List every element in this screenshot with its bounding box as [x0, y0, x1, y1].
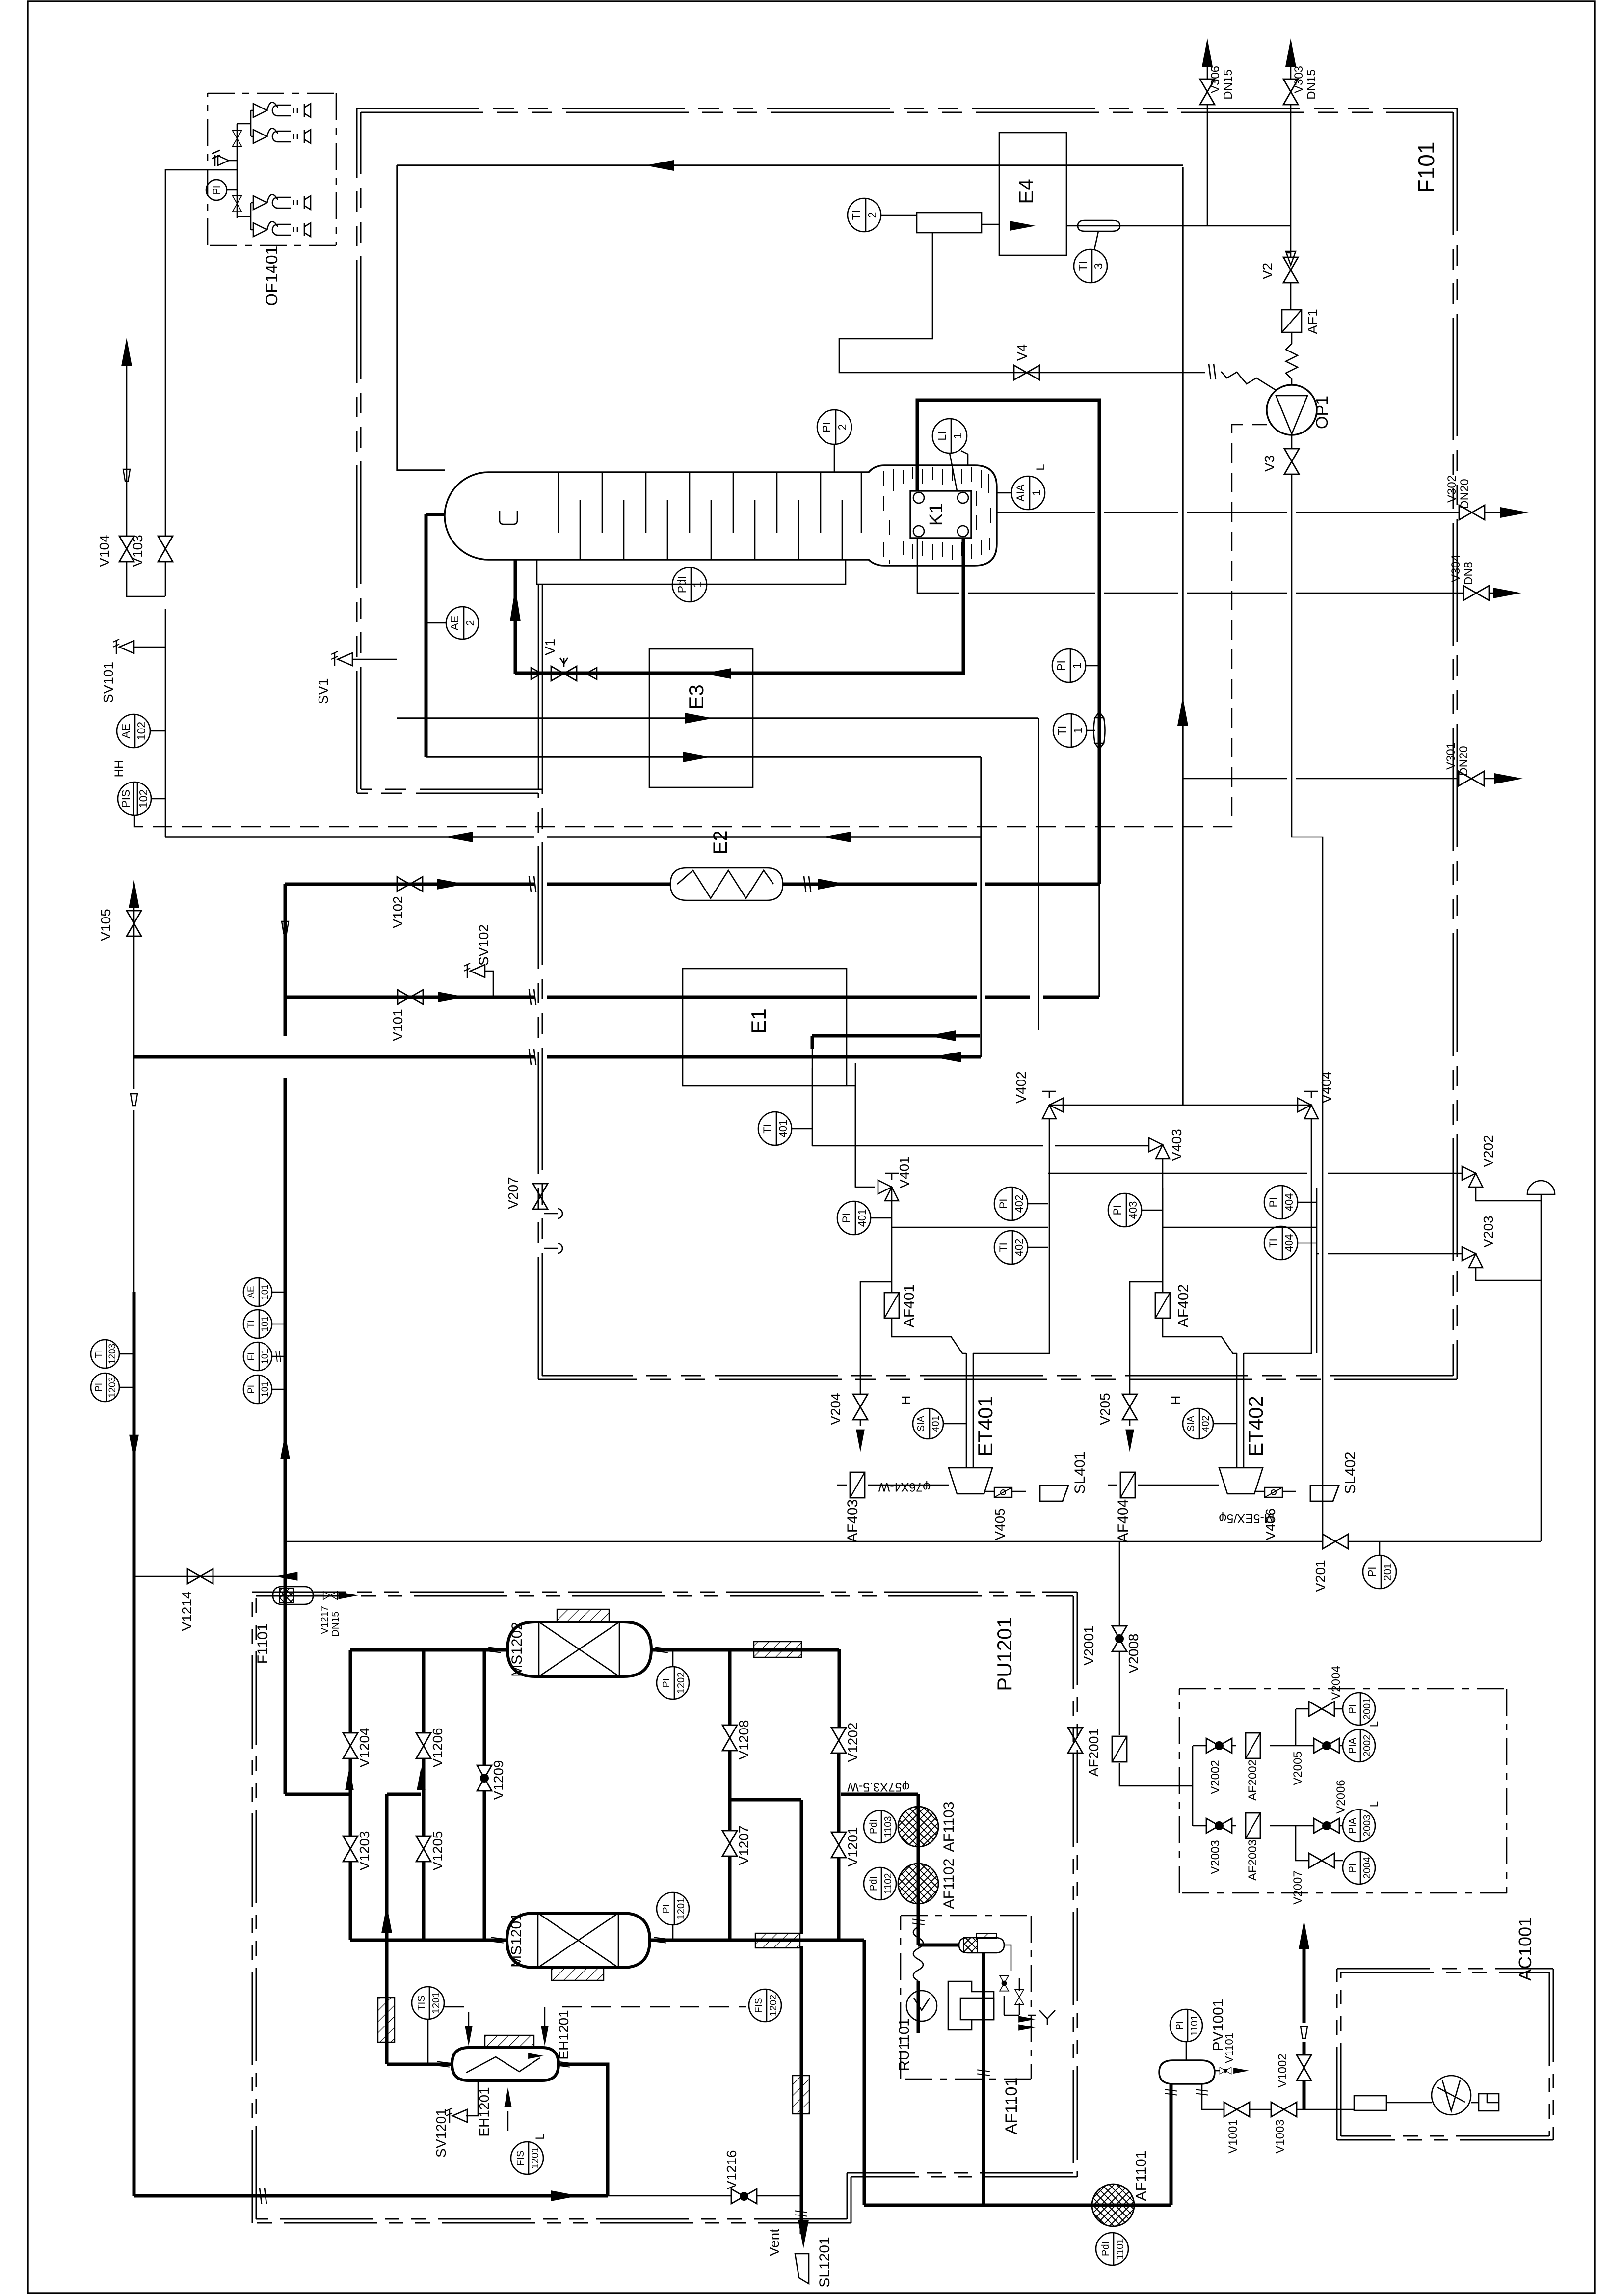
K1 column drum	[445, 465, 997, 566]
svg-text:AF401: AF401	[901, 1284, 917, 1327]
vent valve V303	[1290, 44, 1292, 226]
valve V1202	[831, 1728, 846, 1753]
PdI1 differential loop under K1	[537, 560, 846, 584]
svg-text:SV101: SV101	[101, 662, 116, 703]
svg-text:V1207: V1207	[736, 1826, 751, 1865]
svg-text:102: 102	[137, 789, 150, 808]
svg-text:V2006: V2006	[1334, 1780, 1348, 1813]
OP1 discharge with V3	[1291, 435, 1323, 1541]
valve V1 with flanges	[531, 668, 597, 679]
svg-text:PI: PI	[1055, 660, 1067, 671]
svg-text:402: 402	[1013, 1239, 1025, 1257]
ET401 downcomer piping	[892, 1119, 1049, 1468]
ET402 pot	[1219, 1468, 1263, 1494]
outlet line V1001 V1003	[1202, 2084, 1354, 2109]
main filter AF1101	[864, 2204, 1171, 2207]
line from OF1401 to V103 column	[165, 170, 186, 536]
drum drain double line	[538, 584, 542, 789]
svg-text:1201: 1201	[530, 2147, 541, 2169]
svg-text:TI: TI	[997, 1243, 1010, 1252]
svg-text:V2008: V2008	[1126, 1634, 1141, 1674]
svg-text:DN15: DN15	[1222, 69, 1235, 99]
svg-text:OP1: OP1	[1313, 396, 1331, 429]
svg-text:AF403: AF403	[845, 1499, 861, 1542]
svg-text:2: 2	[836, 424, 849, 431]
svg-text:1: 1	[1070, 663, 1083, 669]
svg-text:OF1401: OF1401	[263, 246, 281, 306]
blowdown filter AF403	[837, 1485, 949, 1486]
ET401 pot	[949, 1468, 992, 1494]
svg-text:LI: LI	[935, 431, 948, 440]
gauge PI402	[994, 1187, 1028, 1220]
svg-text:φ57X3.5-W: φ57X3.5-W	[847, 1780, 910, 1794]
svg-text:PIA: PIA	[1347, 1817, 1358, 1834]
relief valve SV1	[331, 651, 352, 666]
svg-text:AF1103: AF1103	[941, 1802, 957, 1852]
svg-text:403: 403	[1127, 1201, 1139, 1219]
valve V2	[1283, 257, 1298, 283]
K1 bottoms nozzle line	[426, 514, 445, 757]
svg-text:PI: PI	[1347, 1704, 1358, 1714]
angle valve V403	[1149, 1138, 1170, 1159]
valve V1003	[1271, 2102, 1297, 2117]
svg-text:FIS: FIS	[515, 2150, 526, 2165]
valve V2006	[1314, 1818, 1339, 1833]
svg-text:AF2002: AF2002	[1246, 1759, 1259, 1801]
svg-text:SV102: SV102	[476, 924, 491, 966]
gauge PI201	[1363, 1555, 1396, 1589]
PU1201 package boundary (phantom double line)	[252, 1592, 1077, 1593]
svg-text:L: L	[1368, 1801, 1380, 1807]
svg-text:V2001: V2001	[1081, 1626, 1096, 1666]
svg-text:V102: V102	[390, 896, 405, 928]
filter AF401	[884, 1293, 899, 1318]
filter AF402	[1155, 1293, 1170, 1318]
svg-text:PdI: PdI	[1100, 2242, 1111, 2256]
svg-text:1201: 1201	[676, 1898, 687, 1920]
analyzer AE2	[446, 607, 479, 639]
MS1202 feed line	[350, 1649, 839, 1728]
manifold riser	[284, 884, 287, 1794]
svg-text:AF1102: AF1102	[941, 1859, 957, 1909]
gauge PI403	[1108, 1193, 1142, 1227]
svg-text:PI: PI	[661, 1678, 672, 1688]
svg-text:V202: V202	[1481, 1135, 1496, 1167]
E3 heat exchanger box	[649, 649, 753, 787]
drain V205	[1130, 1282, 1163, 1426]
filter AF2003	[1246, 1813, 1260, 1838]
svg-text:201: 201	[1382, 1563, 1394, 1581]
heater element dashed with FIS1201	[507, 2111, 508, 2140]
MS1201 feed line	[350, 1940, 864, 2205]
check valve V406 and sight flag SL402	[1254, 1491, 1296, 1492]
svg-text:AF402: AF402	[1175, 1284, 1192, 1327]
svg-text:PI: PI	[840, 1213, 852, 1223]
gauge TI1 with flow element	[1053, 714, 1087, 747]
svg-text:V401: V401	[897, 1156, 912, 1188]
valve V2002	[1206, 1738, 1232, 1753]
svg-text:H: H	[1169, 1396, 1183, 1405]
svg-text:E3: E3	[685, 684, 708, 709]
svg-text:V2007: V2007	[1291, 1870, 1304, 1904]
vent valve V1101	[1215, 2070, 1220, 2072]
svg-text:F101: F101	[1413, 142, 1439, 193]
angle valve V404	[1298, 1098, 1318, 1119]
suction line V2008 AF2001	[1119, 1541, 1193, 1826]
valve V2004	[1309, 1702, 1334, 1716]
svg-text:PIS: PIS	[119, 789, 132, 808]
svg-text:2: 2	[464, 620, 477, 626]
svg-text:V1101: V1101	[1223, 2033, 1235, 2063]
svg-text:V4: V4	[1014, 344, 1030, 361]
svg-text:V1216: V1216	[724, 2150, 739, 2190]
svg-text:V1002: V1002	[1276, 2053, 1289, 2087]
svg-text:RU1101: RU1101	[896, 2018, 912, 2071]
svg-text:V306: V306	[1209, 66, 1222, 93]
valve V1209 (normally closed)	[477, 1765, 492, 1791]
ET feed header with V402 V404	[1049, 1105, 1311, 1106]
svg-text:V1203: V1203	[357, 1831, 372, 1871]
svg-text:V207: V207	[506, 1177, 521, 1209]
instrument manifold enclosure	[1179, 1688, 1507, 1690]
pump motor blocks	[948, 1981, 994, 2030]
svg-text:V101: V101	[390, 1009, 405, 1041]
valve V102	[397, 877, 423, 891]
svg-text:V104: V104	[97, 535, 112, 567]
purge valves	[1004, 1945, 1019, 2015]
line OF1401 column down to header	[165, 609, 166, 837]
valve V2005	[1314, 1738, 1339, 1753]
svg-text:PI: PI	[1111, 1205, 1123, 1216]
svg-text:101: 101	[260, 1381, 270, 1397]
svg-text:101: 101	[260, 1284, 270, 1300]
buffer pot PV1001	[1170, 2084, 1173, 2205]
svg-text:DN8: DN8	[1462, 562, 1475, 585]
svg-text:V2: V2	[1260, 263, 1275, 279]
separator drain to AF1101	[982, 1953, 985, 2205]
svg-text:PU1201: PU1201	[993, 1617, 1016, 1691]
svg-text:V404: V404	[1319, 1071, 1334, 1103]
OF1401 relief	[212, 150, 237, 166]
flow element TI3	[1078, 220, 1120, 231]
svg-text:H: H	[899, 1396, 913, 1405]
svg-text:SL1201: SL1201	[817, 2237, 833, 2287]
svg-text:TI: TI	[1076, 261, 1089, 271]
left analyzer column AE101 TI101 FI101 PI101	[243, 1278, 272, 1306]
svg-text:PI: PI	[661, 1904, 672, 1914]
svg-text:L: L	[1368, 1721, 1380, 1727]
svg-text:AF1101: AF1101	[1133, 2151, 1149, 2201]
svg-text:V1001: V1001	[1226, 2119, 1240, 2153]
relief SV1201	[466, 2080, 478, 2116]
level switch SIA401	[913, 1408, 943, 1439]
heater EH1201	[452, 2048, 559, 2080]
AC1001 package boundary (phantom double line)	[1337, 1968, 1553, 1970]
svg-text:AE: AE	[246, 1286, 257, 1298]
regeneration return bottom line	[134, 2194, 608, 2198]
valve columns of dryer manifold	[350, 1650, 839, 1940]
svg-text:V304: V304	[1449, 555, 1463, 582]
svg-text:V2002: V2002	[1209, 1760, 1222, 1794]
svg-text:1202: 1202	[768, 1995, 779, 2017]
svg-text:AF2003: AF2003	[1246, 1839, 1259, 1881]
svg-text:V1205: V1205	[430, 1831, 445, 1871]
K1 liquid shading	[883, 467, 990, 564]
svg-text:L: L	[1034, 464, 1047, 470]
svg-text:SV1201: SV1201	[433, 2108, 449, 2158]
svg-text:101: 101	[260, 1349, 270, 1364]
vacuum unit RU1101 enclosure	[901, 1915, 1031, 1917]
valve V4	[1014, 365, 1039, 380]
valve V1214	[187, 1569, 213, 1584]
valve V2007	[1309, 1853, 1334, 1868]
svg-text:AF1101: AF1101	[1002, 2078, 1021, 2135]
valve V304	[1463, 586, 1489, 600]
svg-text:TI: TI	[1267, 1238, 1279, 1248]
filter AF2002	[1246, 1733, 1260, 1758]
overhead line K1 to E4	[397, 165, 1183, 470]
svg-text:V1: V1	[542, 639, 558, 655]
svg-text:E4: E4	[1014, 179, 1038, 204]
svg-text:1: 1	[1071, 728, 1084, 734]
feed line to V401	[855, 1063, 875, 1187]
valve V1203	[343, 1836, 358, 1862]
valve V104	[119, 536, 134, 562]
dryer vent stack to SL1201	[800, 1800, 803, 2234]
drain line to V304	[917, 538, 1514, 593]
svg-text:V1209: V1209	[491, 1760, 506, 1800]
svg-text:PI: PI	[1366, 1567, 1378, 1577]
svg-text:M-5EX/5φ: M-5EX/5φ	[1219, 1512, 1274, 1525]
blowdown filter AF404	[1108, 1485, 1219, 1486]
valve V2001	[1068, 1728, 1083, 1753]
svg-text:PI: PI	[246, 1385, 257, 1394]
filter AF1	[1282, 310, 1302, 332]
svg-text:V402: V402	[1013, 1071, 1029, 1103]
svg-text:1201: 1201	[431, 1992, 442, 2014]
svg-text:V205: V205	[1097, 1393, 1113, 1425]
feed line through V102 to E2	[285, 883, 1099, 886]
svg-text:V303: V303	[1292, 66, 1305, 93]
valve V1216 (normally closed)	[731, 2189, 757, 2204]
valve V1201	[831, 1832, 846, 1858]
svg-text:TI: TI	[1056, 726, 1068, 735]
return line through E1	[134, 1055, 981, 1059]
svg-text:E1: E1	[747, 1008, 770, 1033]
svg-text:102: 102	[135, 722, 148, 740]
svg-text:401: 401	[856, 1209, 868, 1227]
line E4 to vent manifold with flow element	[1066, 225, 1291, 227]
svg-text:1101: 1101	[1189, 2015, 1200, 2036]
recycle line with V201	[285, 1541, 1541, 1542]
svg-text:401: 401	[777, 1120, 789, 1138]
valve V101	[398, 990, 423, 1004]
manifold branch upper V2002 AF2002 V2005 PIA2002	[1193, 1709, 1343, 1746]
valve V103	[158, 536, 173, 562]
svg-text:E2: E2	[710, 831, 731, 855]
E1 internal verticals	[981, 718, 1038, 1057]
gauge PI401	[837, 1201, 871, 1235]
valve V3	[1284, 449, 1299, 474]
vent line with V1216	[608, 2195, 801, 2197]
vent header with weather cap	[1541, 1194, 1542, 1541]
OF1401 internal nozzles	[253, 102, 311, 117]
svg-text:402: 402	[1200, 1415, 1211, 1432]
gauge PI1201	[657, 1892, 689, 1925]
vent line V203 angle valve	[1317, 1253, 1462, 1255]
V105 vent column	[129, 880, 139, 908]
feed line through V101	[285, 996, 1099, 999]
gauges TI1203 PI1203	[91, 1340, 119, 1368]
svg-text:SL402: SL402	[1342, 1452, 1358, 1494]
valve V201	[1323, 1534, 1348, 1549]
vacuum suction line with AF1102 AF1103	[917, 1794, 920, 1945]
valve V1208	[722, 1725, 737, 1751]
temperature switch TIS1201	[412, 1987, 444, 2019]
analyzer AE102	[117, 714, 150, 748]
svg-text:404: 404	[1283, 1193, 1295, 1212]
E2 cooler	[670, 868, 783, 900]
analyzer AIA1	[1011, 476, 1045, 510]
svg-text:2003: 2003	[1362, 1815, 1373, 1837]
level switch SIA402	[1183, 1408, 1213, 1439]
svg-text:AE: AE	[119, 724, 132, 739]
svg-text:101: 101	[260, 1316, 270, 1332]
K1 feed line from E3	[515, 538, 963, 674]
svg-text:3: 3	[1092, 263, 1105, 270]
svg-text:TI: TI	[761, 1124, 773, 1134]
drain V204	[860, 1282, 892, 1426]
svg-text:1203: 1203	[107, 1344, 118, 1364]
svg-text:PI: PI	[94, 1383, 104, 1392]
svg-text:1202: 1202	[676, 1672, 687, 1694]
svg-text:V103: V103	[130, 535, 145, 567]
angle valve V402	[1042, 1098, 1063, 1119]
svg-text:1103: 1103	[883, 1816, 894, 1837]
OF1401 dashed enclosure	[208, 93, 336, 94]
condenser E4 box	[999, 133, 1066, 255]
svg-text:SV1: SV1	[316, 678, 331, 704]
svg-text:TI: TI	[94, 1350, 104, 1358]
svg-text:AE: AE	[448, 616, 461, 631]
inlet filter F1101	[273, 1587, 313, 1604]
K1 generator box	[910, 491, 971, 538]
svg-text:PI: PI	[1174, 2021, 1185, 2030]
svg-text:DN20: DN20	[1458, 479, 1471, 509]
main gas riser to E4	[1182, 167, 1183, 1105]
svg-text:PdI: PdI	[868, 1819, 879, 1834]
svg-text:V201: V201	[1313, 1560, 1328, 1592]
E1 temperature TI401	[758, 1112, 792, 1145]
svg-text:402: 402	[1013, 1195, 1025, 1213]
V207 utility station on boundary	[533, 1184, 548, 1209]
svg-text:V2005: V2005	[1291, 1751, 1304, 1785]
vent arrow line with V104	[121, 338, 132, 366]
svg-text:MS1201: MS1201	[508, 1913, 525, 1968]
valve V301	[1459, 771, 1484, 786]
svg-text:2001: 2001	[1362, 1698, 1373, 1720]
check valve V405 and sight flag SL401	[984, 1491, 1026, 1492]
gauge PI2	[817, 410, 851, 444]
hot stream 2 through E3	[426, 756, 981, 757]
valve V1207	[722, 1831, 737, 1856]
ET401 feed from E1 bottom	[847, 1086, 855, 1187]
svg-text:HH: HH	[112, 760, 126, 778]
K1 overhead riser to right	[917, 400, 1099, 884]
svg-text:V1206: V1206	[430, 1728, 445, 1768]
svg-text:TI: TI	[850, 210, 863, 220]
gauge PI1	[1052, 649, 1086, 682]
valve V302	[1459, 505, 1485, 520]
svg-text:TI: TI	[246, 1320, 257, 1328]
svg-text:PI: PI	[997, 1199, 1010, 1209]
relief valve SV101	[113, 639, 134, 654]
manifold branch lower V2003 AF2003 V2006 PIA2003	[1193, 1826, 1343, 1861]
svg-text:V204: V204	[828, 1393, 843, 1425]
svg-text:PI: PI	[1347, 1864, 1358, 1873]
svg-text:1: 1	[1030, 490, 1042, 496]
svg-text:V203: V203	[1481, 1216, 1496, 1247]
OP1 pump column: reducer, V2, AF1	[1286, 226, 1292, 344]
gauge PI404	[1264, 1186, 1298, 1219]
svg-text:EH1201: EH1201	[556, 2010, 571, 2059]
K1 weir	[500, 511, 517, 524]
ET402 downcomer piping	[1163, 1119, 1317, 1468]
E1 outlet line	[812, 1034, 980, 1038]
OP1 flex suction	[1221, 372, 1276, 390]
svg-text:V2004: V2004	[1330, 1666, 1343, 1700]
svg-text:Vent: Vent	[767, 2229, 782, 2256]
svg-text:PdI: PdI	[675, 576, 688, 594]
svg-text:FI: FI	[246, 1352, 257, 1361]
svg-text:1101: 1101	[1115, 2238, 1126, 2259]
gauge TI402	[994, 1231, 1028, 1264]
svg-text:SIA: SIA	[1186, 1415, 1197, 1432]
svg-text:2004: 2004	[1362, 1857, 1373, 1879]
F101 package boundary (phantom double line)	[357, 108, 1457, 109]
gauge PI1202	[657, 1667, 689, 1699]
svg-text:V1201: V1201	[845, 1827, 860, 1867]
svg-text:PI: PI	[820, 422, 833, 432]
svg-text:DN20: DN20	[1457, 746, 1470, 776]
svg-text:L: L	[533, 2133, 547, 2139]
svg-text:ET401: ET401	[974, 1396, 997, 1457]
svg-text:V1214: V1214	[179, 1592, 194, 1631]
svg-text:V301: V301	[1444, 742, 1458, 770]
discharge separator	[959, 1938, 1004, 1953]
svg-text:ET402: ET402	[1244, 1396, 1267, 1457]
V2004 branch with PI2001	[1296, 1708, 1343, 1710]
gauge TI404	[1264, 1226, 1298, 1260]
svg-text:PdI: PdI	[868, 1876, 879, 1891]
svg-text:V1217: V1217	[319, 1606, 330, 1634]
svg-text:2002: 2002	[1362, 1735, 1373, 1757]
riser V1002 to process	[1303, 1946, 1306, 2109]
angle valve V401	[878, 1180, 899, 1201]
valve V1001	[1224, 2102, 1250, 2117]
svg-text:V105: V105	[98, 909, 113, 941]
svg-text:V1204: V1204	[357, 1728, 372, 1768]
svg-text:AF404: AF404	[1115, 1499, 1131, 1542]
vent line V202 angle valve	[1048, 1173, 1462, 1174]
svg-text:V1003: V1003	[1274, 2119, 1287, 2153]
pressure switch PIS102 HH	[118, 782, 151, 815]
purge line to V301	[1183, 778, 1516, 780]
reducer on V104 line	[123, 469, 130, 481]
AC1001 internals	[1354, 2096, 1386, 2110]
svg-text:V3: V3	[1262, 455, 1277, 472]
valve V1205	[416, 1836, 431, 1862]
